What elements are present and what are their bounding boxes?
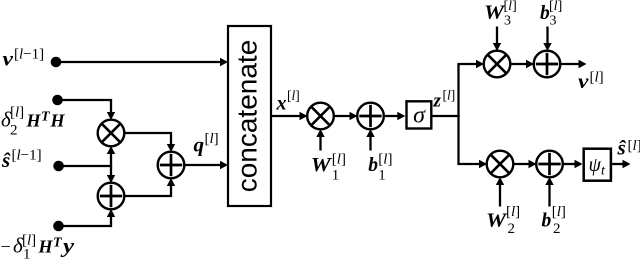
arrow W2 into M4 xyxy=(496,177,504,207)
svg-text:concatenate: concatenate xyxy=(232,40,263,193)
multiplier M2 (W1) xyxy=(307,103,334,130)
arrow b1 into A3 xyxy=(366,129,374,151)
label b1^[l] xyxy=(368,152,392,184)
svg-text:[l]: [l] xyxy=(628,138,640,154)
svg-text:T: T xyxy=(53,236,63,251)
svg-text:T: T xyxy=(41,110,51,125)
svg-text:[l]: [l] xyxy=(504,0,517,14)
svg-text:[l]: [l] xyxy=(552,204,566,220)
svg-text:2: 2 xyxy=(553,221,561,237)
wire M4 to adder A5 xyxy=(513,160,536,168)
wire M3 to adder A4 xyxy=(510,60,534,68)
svg-text:1: 1 xyxy=(332,168,340,184)
arrow W3 into M3 xyxy=(493,27,501,52)
wire branch to multiplier M3 xyxy=(457,60,484,68)
svg-text:−: − xyxy=(1,237,11,257)
wire sigma to branch point xyxy=(433,115,460,117)
wire s^[l-1] to junction xyxy=(59,165,111,167)
node v^[l-1] input dot xyxy=(51,57,62,68)
arrow W1 into M2 xyxy=(316,129,324,151)
adder A5 (b2) xyxy=(536,151,563,178)
label -delta1^[l] H^T y xyxy=(1,233,75,259)
svg-text:x: x xyxy=(276,93,287,115)
svg-text:W: W xyxy=(486,211,508,232)
label v^[l] xyxy=(578,69,604,93)
wire delta2 input down into multiplier M1 xyxy=(58,100,116,120)
label s^[l-1] xyxy=(1,148,42,173)
arrow b2 into A5 xyxy=(545,177,553,207)
node -delta1 H^T y input dot xyxy=(53,221,64,232)
svg-text:ψ: ψ xyxy=(589,154,602,176)
svg-text:H: H xyxy=(26,111,42,131)
wire branch to multiplier M4 xyxy=(457,160,487,168)
svg-text:v: v xyxy=(3,47,14,71)
wire junction down into adder A1 xyxy=(107,165,115,183)
svg-text:3: 3 xyxy=(504,14,511,29)
multiplier M1 xyxy=(98,120,125,147)
shrinkage box psi_t xyxy=(584,149,611,181)
svg-text:[l−1]: [l−1] xyxy=(14,47,44,63)
svg-text:[l]: [l] xyxy=(332,152,346,168)
svg-text:b: b xyxy=(542,211,552,232)
adder A2 xyxy=(158,152,185,179)
wire M2 to adder A3 xyxy=(334,112,358,120)
concatenate box xyxy=(228,26,271,206)
svg-text:[l]: [l] xyxy=(443,88,456,103)
output arrow v^[l] xyxy=(560,60,586,68)
label x^[l] xyxy=(276,88,300,115)
svg-text:z: z xyxy=(433,91,442,112)
svg-text:b: b xyxy=(368,155,378,176)
svg-text:3: 3 xyxy=(550,14,557,29)
arrow b3 into A4 xyxy=(543,27,551,52)
svg-text:ŝ: ŝ xyxy=(617,136,627,160)
node delta2 H^T H input dot xyxy=(52,95,63,106)
label b2^[l] xyxy=(542,204,566,237)
adder A3 (b1) xyxy=(357,103,384,130)
wire A5 to psi box xyxy=(563,160,583,168)
svg-text:[l]: [l] xyxy=(22,233,36,249)
label delta2^[l] H^T H xyxy=(1,105,66,139)
label q^[l] xyxy=(194,131,219,156)
label v^[l-1] xyxy=(3,47,45,71)
svg-text:[l]: [l] xyxy=(205,131,219,147)
wire A1 output to adder A2 xyxy=(124,178,175,196)
adder A4 (b3) xyxy=(534,51,561,78)
svg-text:[l]: [l] xyxy=(549,0,562,14)
label z^[l] xyxy=(433,88,456,112)
wire M1 output to adder A2 xyxy=(124,133,175,152)
svg-text:[l−1]: [l−1] xyxy=(12,148,42,164)
svg-text:1: 1 xyxy=(378,168,386,184)
adder A1 xyxy=(98,183,125,210)
wire A3 to sigma box xyxy=(384,112,406,120)
wire branch vertical xyxy=(457,64,459,164)
label b3^[l] xyxy=(540,0,562,29)
svg-text:[l]: [l] xyxy=(590,69,604,85)
svg-text:H: H xyxy=(50,111,66,131)
svg-text:H: H xyxy=(38,237,54,257)
svg-text:v: v xyxy=(578,69,589,93)
svg-text:2: 2 xyxy=(10,123,18,139)
svg-text:q: q xyxy=(194,133,205,157)
svg-text:W: W xyxy=(311,155,333,176)
wire -delta1 input up into adder A1 xyxy=(59,209,116,226)
output arrow s^[l] xyxy=(612,160,630,168)
label W1^[l] xyxy=(311,152,346,184)
multiplier M3 (W3) xyxy=(484,51,511,78)
svg-text:2: 2 xyxy=(508,221,516,237)
label W3^[l] xyxy=(484,0,517,29)
wire A2 to concatenate box xyxy=(184,161,228,169)
svg-text:[l]: [l] xyxy=(506,204,520,220)
multiplier M4 (W2) xyxy=(487,151,514,178)
activation box sigma xyxy=(407,101,432,128)
wire v^[l-1] to concatenate box xyxy=(56,58,228,66)
svg-text:ŝ: ŝ xyxy=(1,148,11,172)
node s^[l-1] input dot xyxy=(53,161,64,172)
label W2^[l] xyxy=(486,204,520,237)
svg-text:σ: σ xyxy=(413,103,426,129)
label s^[l] xyxy=(617,136,640,160)
svg-text:[l]: [l] xyxy=(378,152,392,168)
svg-text:[l]: [l] xyxy=(10,105,24,121)
wire junction up into M1 xyxy=(107,146,115,167)
svg-text:[l]: [l] xyxy=(287,88,300,103)
wire concatenate to multiplier M2 xyxy=(271,112,308,120)
